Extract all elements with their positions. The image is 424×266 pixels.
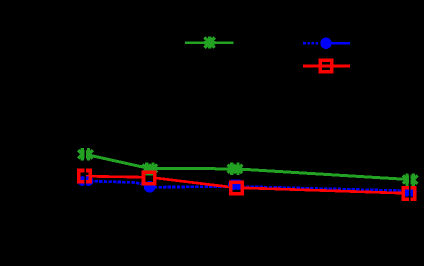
blue series dashed line bbox=[85, 181, 410, 191]
blue circle pair point 4 bbox=[402, 187, 412, 197]
green asterisk pair point 3 bbox=[228, 163, 243, 175]
red square point 1 bbox=[79, 171, 90, 182]
black right axis border line bbox=[409, 30, 411, 235]
red square point 4 bbox=[403, 188, 414, 199]
green asterisk lower arms bar inside point 2 square bbox=[146, 173, 153, 175]
legend green asterisk bbox=[204, 37, 216, 49]
red square point 2 bbox=[144, 172, 155, 183]
blue circle pair point 3 bbox=[228, 179, 239, 190]
legend blue sample dashed segment bbox=[303, 42, 319, 45]
red square point 3 bbox=[231, 182, 242, 193]
red series line bbox=[85, 176, 410, 193]
green series line bbox=[85, 154, 410, 179]
black left axis border line bbox=[84, 30, 86, 235]
blue circle pair point 2 bbox=[144, 181, 156, 193]
green asterisk pair point 4 bbox=[403, 173, 418, 185]
legend red sample line bbox=[303, 65, 350, 68]
legend red square bbox=[320, 60, 331, 71]
legend green sample line bbox=[185, 41, 234, 44]
blue circle pair point 1 bbox=[77, 176, 87, 186]
green asterisk pair point 1 bbox=[78, 148, 93, 160]
legend blue sample solid segment bbox=[331, 42, 350, 45]
black erase box under point 2 marker bbox=[145, 176, 153, 180]
legend blue circle bbox=[320, 38, 331, 49]
green asterisk pair point 2 bbox=[143, 162, 158, 174]
